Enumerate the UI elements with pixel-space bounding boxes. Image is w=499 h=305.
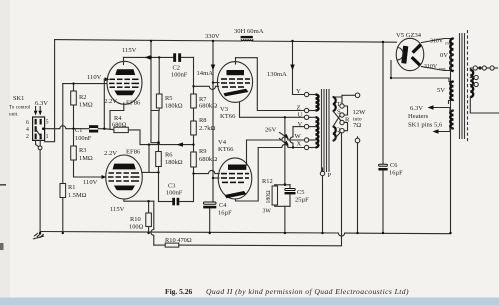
terminal U xyxy=(304,115,308,119)
resistor R8 2.7k xyxy=(191,121,197,135)
svg-text:25µF: 25µF xyxy=(295,197,309,204)
primary winding lower xyxy=(316,117,319,147)
wire: cathode bias vertical to R12 C5 xyxy=(284,117,286,184)
wire: R5 leads xyxy=(158,57,160,94)
node 330V feed vertical xyxy=(151,41,159,143)
svg-text:16µF: 16µF xyxy=(389,170,403,177)
terminal W xyxy=(304,138,308,142)
svg-text:R6: R6 xyxy=(165,152,172,159)
core xyxy=(322,89,330,172)
output transformer T1 xyxy=(295,88,367,245)
svg-text:SK1: SK1 xyxy=(13,95,24,102)
wire: input wire with hop over R1 column xyxy=(45,126,89,129)
5V winding xyxy=(450,82,453,101)
wire: screen node down through R1 xyxy=(62,84,64,184)
valve V2 EF86 xyxy=(104,149,142,214)
wire: V4 grid wire with hop xyxy=(194,170,220,173)
wire: V2 cathode to R10 and feedback leg xyxy=(124,199,154,201)
mains primary winding xyxy=(470,70,473,97)
svg-text:680kΩ: 680kΩ xyxy=(199,156,217,163)
svg-text:1MΩ: 1MΩ xyxy=(79,102,93,109)
wire: anode to 310V bottom xyxy=(422,67,454,71)
connector SK1 xyxy=(9,95,49,140)
svg-text:2: 2 xyxy=(26,134,29,140)
svg-text:C5: C5 xyxy=(297,189,304,196)
primary winding upper xyxy=(316,95,319,111)
wire: V1 grid from C1 xyxy=(104,79,106,129)
wire: screen feed 14mA vertical xyxy=(212,41,214,202)
wire: V4 cathode to X xyxy=(236,148,259,202)
terminal Y xyxy=(304,92,308,96)
svg-text:R3: R3 xyxy=(79,147,86,154)
svg-text:5: 5 xyxy=(46,119,49,125)
svg-text:Fig. 5.26: Fig. 5.26 xyxy=(165,287,193,296)
svg-text:2.2V: 2.2V xyxy=(104,150,117,157)
svg-text:115V: 115V xyxy=(122,47,137,54)
sec cross wires xyxy=(333,95,342,97)
resistor R1 1.5M xyxy=(60,184,66,198)
resistor R10 100R xyxy=(146,213,152,227)
capacitor C2 100nF xyxy=(171,53,188,78)
svg-text:R5: R5 xyxy=(165,95,172,102)
valve V3 KT66 xyxy=(217,58,252,120)
svg-text:C1: C1 xyxy=(75,127,82,134)
wire: R4 balance wire to R8/R9 xyxy=(128,130,193,145)
wire: V3 cathode to U xyxy=(240,102,305,117)
valve V1 EF86 xyxy=(104,57,142,106)
wire: V2 anode to node xyxy=(142,171,159,173)
svg-text:310V: 310V xyxy=(430,39,444,45)
svg-text:180kΩ: 180kΩ xyxy=(165,103,183,110)
svg-text:C6: C6 xyxy=(390,162,397,169)
svg-text:180Ω: 180Ω xyxy=(266,190,272,204)
wire: 0V centre tap to ground xyxy=(451,55,454,234)
6.3V heater winding xyxy=(450,111,453,129)
secondary winding upper xyxy=(333,97,336,111)
resistor R4 680 (horizontal) xyxy=(114,127,128,132)
svg-text:V5 GZ34: V5 GZ34 xyxy=(396,32,422,39)
terminal X xyxy=(304,145,308,149)
capacitor C1 100nF (input) xyxy=(75,125,98,142)
resistor R5 180k xyxy=(156,94,162,108)
svg-text:U: U xyxy=(298,112,303,119)
capacitor C5 25uF xyxy=(289,185,291,189)
wire: C3 node down xyxy=(158,172,160,201)
svg-text:Q: Q xyxy=(336,127,341,134)
wire: V1 anode node 115V xyxy=(124,56,174,58)
svg-text:unit.: unit. xyxy=(9,112,18,118)
svg-text:1MΩ: 1MΩ xyxy=(79,155,93,162)
terminal T xyxy=(340,104,344,108)
svg-text:P: P xyxy=(328,172,332,179)
svg-text:1: 1 xyxy=(46,134,49,140)
wire: V stub + link xyxy=(293,126,304,128)
svg-text:X: X xyxy=(297,141,302,148)
wire: feedback line + resistor R10 470R xyxy=(154,244,165,246)
ground xyxy=(33,233,44,239)
svg-text:KT66: KT66 xyxy=(220,113,236,120)
svg-text:100nF: 100nF xyxy=(166,190,183,197)
svg-text:EF86: EF86 xyxy=(126,149,141,156)
wire: HT top rail xyxy=(55,40,241,41)
svg-text:R10 470Ω: R10 470Ω xyxy=(165,237,192,244)
svg-text:KT66: KT66 xyxy=(218,146,234,153)
svg-text:100nF: 100nF xyxy=(171,72,188,79)
svg-text:Z: Z xyxy=(297,105,301,112)
resistor R6 180k xyxy=(158,143,160,152)
wire: input node to R4 / V1 cathode xyxy=(104,128,114,131)
svg-text:To control: To control xyxy=(9,105,31,111)
svg-text:6: 6 xyxy=(26,120,29,126)
resistor R12 180R 3W xyxy=(274,185,276,186)
wire: Q to feedback xyxy=(341,133,343,246)
svg-text:1.5MΩ: 1.5MΩ xyxy=(68,192,87,199)
svg-text:Heaters: Heaters xyxy=(408,113,429,120)
strap T-S xyxy=(344,106,347,115)
svg-text:5V: 5V xyxy=(437,87,445,94)
capacitor C4 16uF xyxy=(203,202,232,233)
blue footer band xyxy=(0,298,499,305)
resistor R2 1M xyxy=(73,84,75,91)
terminal Q xyxy=(340,129,344,133)
svg-text:C4: C4 xyxy=(219,202,227,209)
core xyxy=(460,33,465,139)
terminal S xyxy=(340,113,344,117)
mains transformer T2 xyxy=(408,30,499,233)
wire: SK1 ground leg with terminal xyxy=(36,141,39,148)
svg-text:Quad II (by kind permission of: Quad II (by kind permission of Quad Elec… xyxy=(206,287,409,296)
svg-text:R2: R2 xyxy=(79,94,86,101)
svg-text:3W: 3W xyxy=(263,209,272,215)
svg-text:SK1 pins 5,6: SK1 pins 5,6 xyxy=(408,122,443,129)
terminal Z xyxy=(304,108,308,112)
svg-text:S: S xyxy=(337,109,341,116)
svg-text:680Ω: 680Ω xyxy=(112,122,127,129)
wire: HT down to C6 xyxy=(382,42,384,164)
wire: C3 coupling wire xyxy=(159,201,173,203)
svg-text:14mA: 14mA xyxy=(197,70,214,77)
capacitor C3 100nF xyxy=(166,183,183,206)
wire: GZ34 filament bottom to 5V xyxy=(391,61,454,82)
wire: V4 anode to W xyxy=(246,140,248,165)
resistor R3 1M xyxy=(73,129,75,146)
terminal V xyxy=(304,124,308,128)
wire: ground rail xyxy=(40,232,338,234)
top anode xyxy=(412,44,422,54)
valve V5 GZ34 rectifier xyxy=(396,32,424,71)
svg-text:4: 4 xyxy=(26,127,29,133)
strap R-Q xyxy=(344,123,347,131)
wire: V1 screen 110V xyxy=(63,83,107,85)
wire: C2 out down to R7 xyxy=(193,57,195,94)
svg-text:100nF: 100nF xyxy=(75,135,92,142)
svg-text:R9: R9 xyxy=(199,148,206,155)
speaker terminals 12W into 7R xyxy=(355,93,360,98)
svg-text:V3: V3 xyxy=(220,106,229,113)
HT secondary winding xyxy=(450,39,453,72)
wire: HT to Y 130mA xyxy=(293,41,305,95)
wire: anode to 310V top xyxy=(422,39,454,43)
svg-text:7Ω: 7Ω xyxy=(353,122,361,129)
svg-text:330V: 330V xyxy=(205,33,220,40)
svg-text:0V: 0V xyxy=(440,52,448,59)
svg-text:26V: 26V xyxy=(265,127,277,134)
svg-text:680kΩ: 680kΩ xyxy=(199,103,217,110)
wire: V3 grid wire with hop xyxy=(194,86,219,89)
svg-text:T: T xyxy=(337,101,341,108)
terminal P xyxy=(320,171,324,175)
svg-text:180kΩ: 180kΩ xyxy=(165,159,183,166)
svg-text:V: V xyxy=(298,121,303,128)
mains taps xyxy=(470,68,473,70)
wire: heater taps to SK1 xyxy=(432,108,454,111)
capacitor C6 16uF xyxy=(379,164,388,166)
cathode bar xyxy=(401,46,408,64)
bottom anode xyxy=(411,56,421,66)
secondary winding lower xyxy=(333,127,336,141)
svg-text:12W: 12W xyxy=(353,109,367,116)
svg-text:R10: R10 xyxy=(130,216,141,223)
wire: V3 screen stub xyxy=(213,82,219,84)
wire: left rail down to SK1 xyxy=(45,40,55,142)
valve V4 KT66 xyxy=(218,139,252,199)
svg-text:EF86: EF86 xyxy=(126,100,141,107)
choke L1 30H 60mA xyxy=(234,28,264,41)
svg-text:115V: 115V xyxy=(110,206,125,213)
resistor R7 680k xyxy=(191,94,197,108)
svg-text:110V: 110V xyxy=(83,179,98,186)
resistor R9 680k xyxy=(191,152,197,167)
svg-text:2.2V: 2.2V xyxy=(104,98,117,105)
svg-text:6.3V: 6.3V xyxy=(35,100,48,107)
svg-text:100Ω: 100Ω xyxy=(129,224,144,231)
svg-text:R12: R12 xyxy=(262,178,273,185)
terminal R xyxy=(340,120,344,124)
svg-text:16µF: 16µF xyxy=(218,210,232,217)
svg-text:W: W xyxy=(295,133,302,140)
svg-text:6.3V: 6.3V xyxy=(410,105,423,112)
current arrow into V1 anode xyxy=(145,55,151,59)
svg-text:30H 60mA: 30H 60mA xyxy=(234,28,264,35)
svg-text:310V: 310V xyxy=(424,64,438,70)
svg-text:rms: rms xyxy=(439,66,446,71)
svg-text:R8: R8 xyxy=(199,117,206,124)
svg-text:Y: Y xyxy=(296,88,301,95)
wire: V4 screen stub xyxy=(213,177,219,179)
filament arc xyxy=(397,48,403,60)
svg-text:110V: 110V xyxy=(87,74,102,81)
wire: V3 anode to Z xyxy=(236,58,305,111)
svg-text:R1: R1 xyxy=(68,184,75,191)
svg-text:V4: V4 xyxy=(218,139,227,146)
svg-text:130mA: 130mA xyxy=(267,71,287,78)
